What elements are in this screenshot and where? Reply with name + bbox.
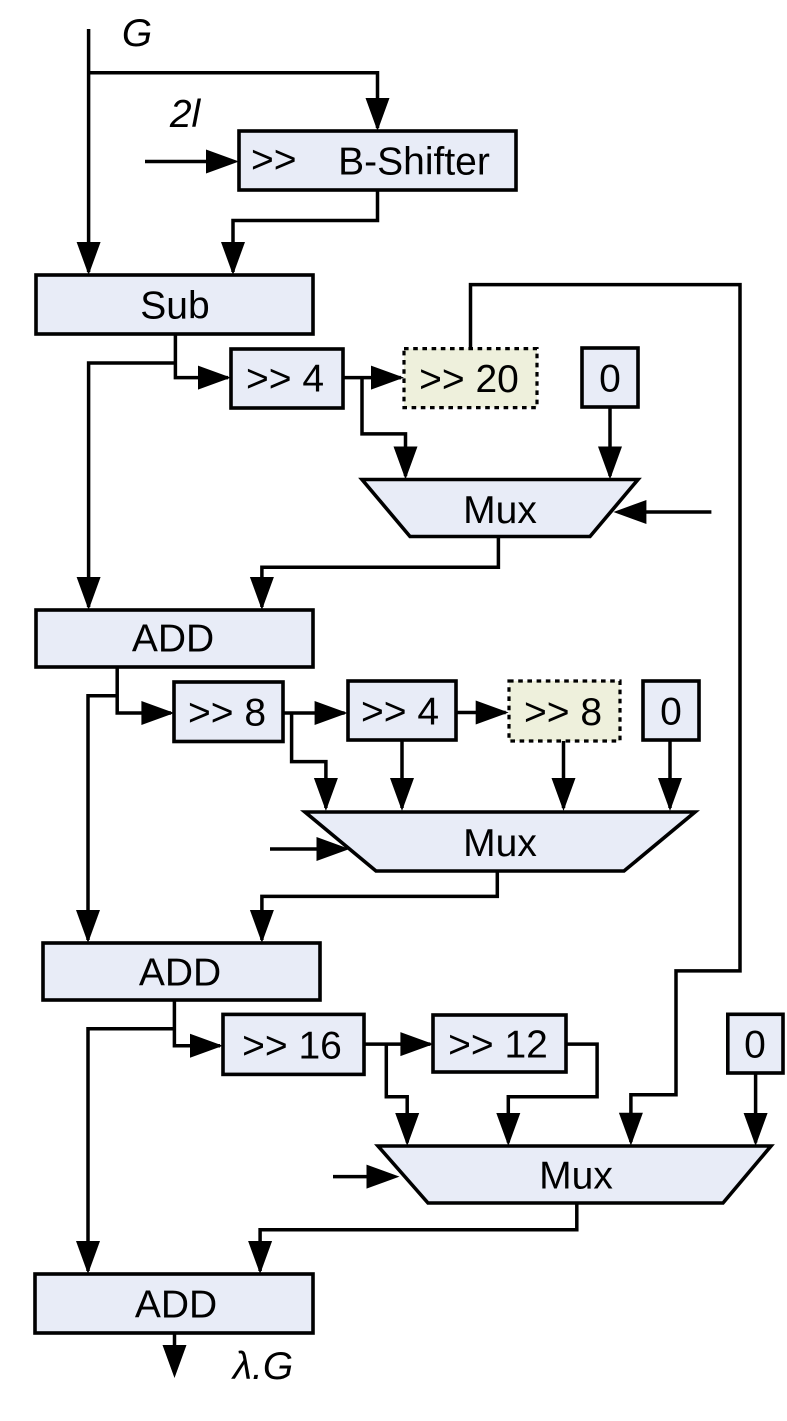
wire Mux2 select [270, 847, 320, 851]
svg-text:ADD: ADD [132, 618, 214, 661]
wire ADD1 branch down left rail [88, 696, 117, 940]
wire Mux3 select [333, 1175, 370, 1179]
wire dashed >>8 down to Mux2 [562, 741, 566, 808]
block shifter >>4 second [348, 681, 456, 740]
wire 0 second down to Mux2 [668, 740, 672, 808]
wire ADD2 branch down left rail [88, 1029, 174, 1271]
svg-text:>> 12: >> 12 [448, 1024, 548, 1067]
svg-text:B-Shifter: B-Shifter [338, 141, 490, 184]
block ADD2 [43, 943, 320, 1000]
wire ADD2 output to >>16 [174, 1000, 220, 1046]
wire Mux1 select [643, 510, 711, 514]
svg-text:0: 0 [660, 691, 682, 734]
block constant 0 third [728, 1014, 783, 1073]
wire G branch to B-Shifter [89, 73, 378, 128]
svg-text:λ.G: λ.G [231, 1345, 293, 1388]
svg-text:>> 16: >> 16 [242, 1024, 342, 1067]
svg-text:G: G [122, 12, 152, 55]
wire G vertical to Sub [87, 29, 91, 272]
svg-text:ADD: ADD [135, 1284, 217, 1327]
wire >>4 to >>20 [343, 376, 401, 380]
wire >>16 branch to Mux3 [386, 1044, 407, 1142]
wire >>4 branch to Mux1 [362, 378, 406, 476]
wire >>4 second to dashed >>8 [456, 711, 506, 715]
block shifter >>8 dashed [509, 681, 620, 741]
block shifter >>20 dashed [404, 349, 537, 408]
wire >>12 output loop to Mux3 [508, 1044, 597, 1142]
svg-text:>>: >> [251, 139, 297, 182]
block Sub [36, 275, 313, 334]
wire ADD3 output arrow [173, 1333, 177, 1361]
wire 0 third down to Mux3 [754, 1073, 758, 1143]
wire >>4 second output down to Mux2 [400, 740, 404, 808]
svg-text:>> 4: >> 4 [361, 691, 439, 734]
svg-text:0: 0 [599, 358, 621, 401]
block constant 0 first [582, 348, 638, 407]
wire Mux2 output to ADD2 [262, 871, 497, 940]
wire Sub branch down left rail [89, 363, 176, 607]
svg-text:Mux: Mux [539, 1155, 613, 1198]
svg-text:ADD: ADD [139, 952, 221, 995]
wire >>8 to >>4 second [283, 711, 345, 715]
mux Mux3 [378, 1146, 771, 1203]
svg-text:Mux: Mux [463, 822, 537, 865]
wire ADD1 output to >>8 [117, 667, 171, 713]
wire Mux1 output to ADD1 [262, 537, 499, 608]
block ADD1 [36, 610, 313, 667]
block ADD3 [35, 1274, 313, 1333]
mux Mux1 [362, 480, 638, 537]
wire 2l into B-Shifter [145, 160, 210, 164]
svg-text:>> 20: >> 20 [419, 358, 519, 401]
svg-text:0: 0 [744, 1024, 766, 1067]
svg-text:>> 4: >> 4 [246, 358, 324, 401]
svg-text:Mux: Mux [463, 489, 537, 532]
block shifter >>12 [433, 1015, 566, 1072]
block shifter >>4 first [231, 349, 343, 408]
wire B-Shifter output to Sub [233, 190, 378, 272]
wire >>16 to >>12 [364, 1042, 430, 1046]
svg-text:Sub: Sub [140, 285, 209, 328]
wire Mux3 output to ADD3 [260, 1203, 577, 1271]
wire Sub output to shifter >>4 [175, 334, 228, 378]
wire >>20 feedback up and right rail down to Mux3 [471, 285, 741, 1142]
block shifter >>16 [223, 1014, 364, 1074]
wire >>8 branch to Mux2 [292, 713, 326, 808]
block constant 0 second [643, 681, 699, 740]
svg-text:>> 8: >> 8 [188, 692, 266, 735]
mux Mux2 [305, 812, 695, 871]
block B-Shifter U1 [239, 131, 516, 190]
wire 0 to Mux1 [608, 407, 612, 476]
svg-text:>> 8: >> 8 [524, 691, 602, 734]
block shifter >>8 [174, 682, 283, 742]
svg-text:2l: 2l [169, 93, 202, 136]
